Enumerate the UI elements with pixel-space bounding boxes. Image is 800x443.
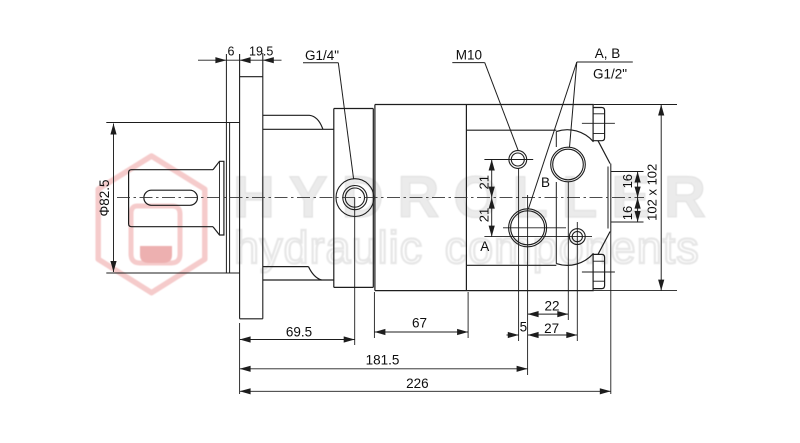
svg-text:5: 5 xyxy=(520,320,528,335)
svg-text:69.5: 69.5 xyxy=(286,325,312,340)
svg-text:27: 27 xyxy=(544,321,559,336)
svg-text:6: 6 xyxy=(228,45,235,59)
svg-text:A: A xyxy=(480,239,489,254)
svg-text:16: 16 xyxy=(620,174,635,188)
svg-text:102 x 102: 102 x 102 xyxy=(645,164,660,221)
svg-text:21: 21 xyxy=(476,175,491,189)
svg-text:181.5: 181.5 xyxy=(366,353,400,368)
svg-text:226: 226 xyxy=(406,376,429,391)
svg-text:16: 16 xyxy=(620,206,635,220)
svg-text:G1/2": G1/2" xyxy=(593,67,627,82)
svg-text:Φ82.5: Φ82.5 xyxy=(97,179,112,216)
svg-text:A, B: A, B xyxy=(595,46,621,61)
svg-text:21: 21 xyxy=(476,208,491,222)
svg-text:B: B xyxy=(541,175,550,190)
svg-text:M10: M10 xyxy=(456,48,482,63)
svg-text:G1/4": G1/4" xyxy=(305,48,339,63)
svg-text:22: 22 xyxy=(544,299,559,314)
svg-text:19.5: 19.5 xyxy=(249,45,273,59)
svg-text:67: 67 xyxy=(412,316,427,331)
